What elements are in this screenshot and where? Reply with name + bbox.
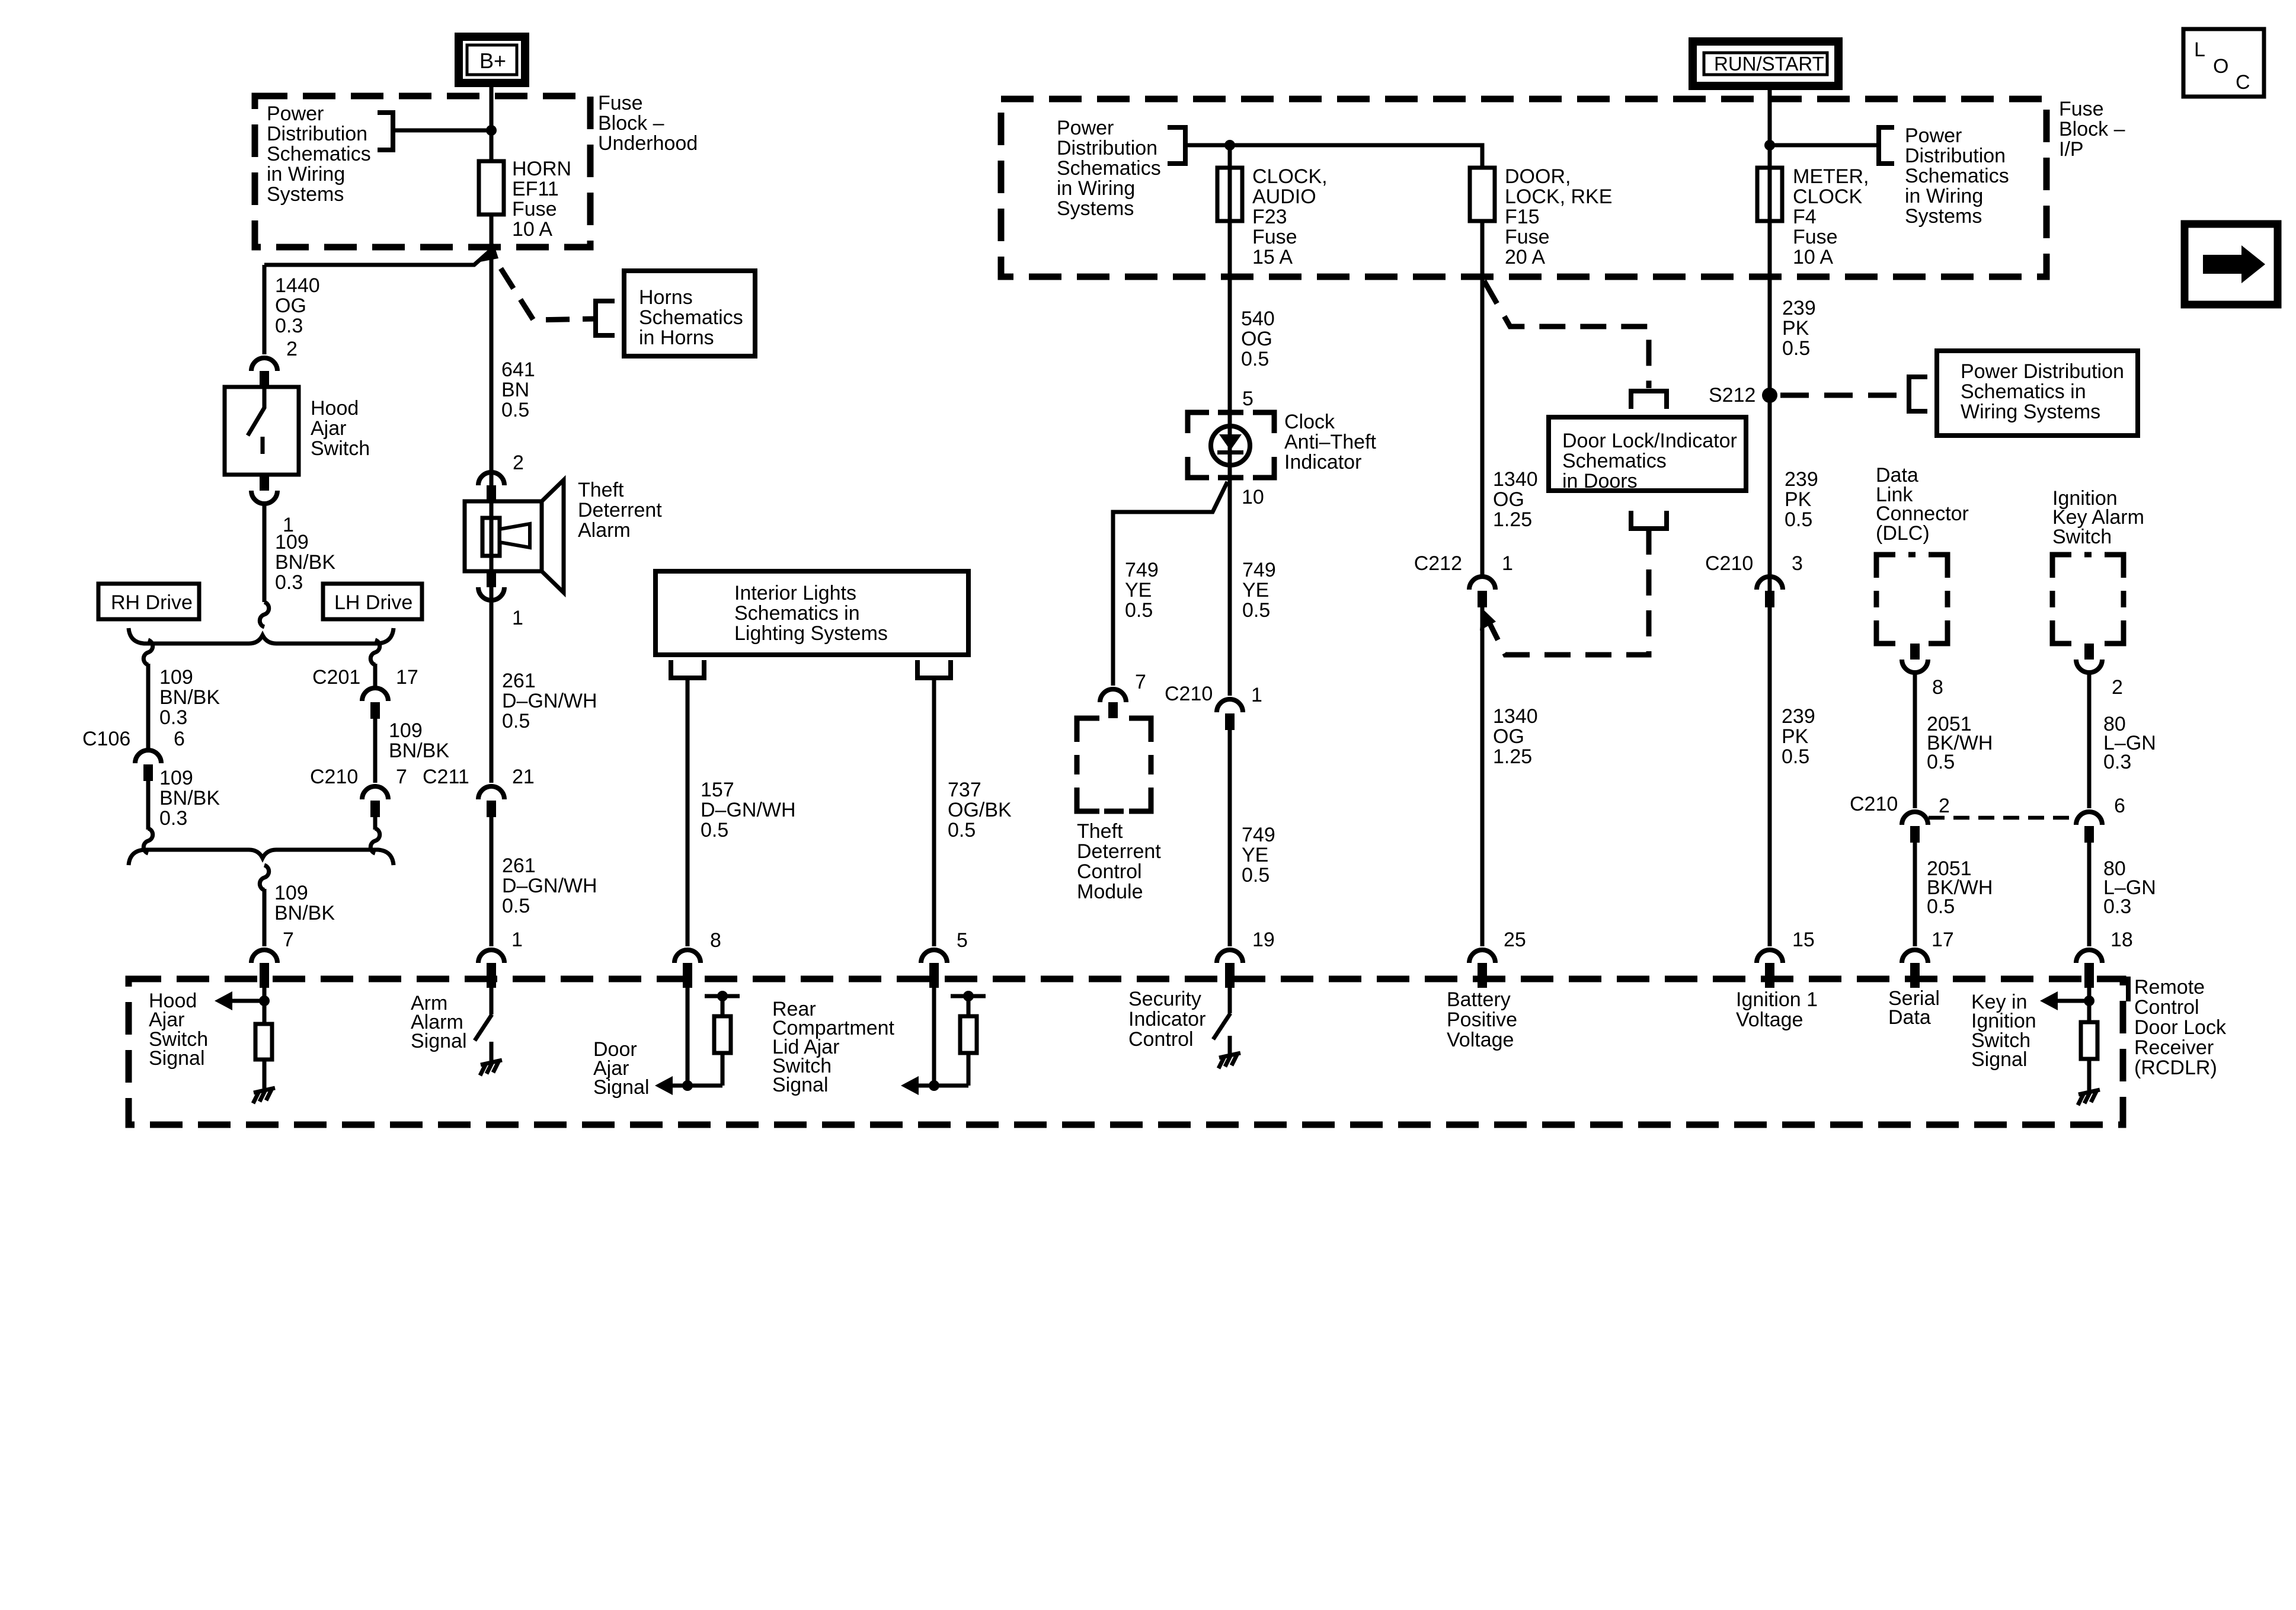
svg-text:YE: YE [1242, 579, 1269, 601]
wire merged to pin 7 [263, 889, 267, 946]
svg-text:17: 17 [1932, 929, 1954, 951]
label Door Lock/Indicator Schematics in Doors [1562, 430, 1737, 492]
svg-text:F4: F4 [1793, 206, 1817, 228]
LH Drive tag box [323, 584, 422, 619]
svg-text:109: 109 [159, 767, 193, 789]
svg-text:Interior Lights: Interior Lights [734, 582, 856, 604]
svg-text:(RCDLR): (RCDLR) [2134, 1057, 2217, 1079]
svg-text:Power: Power [1057, 117, 1114, 139]
LOC legend box [2183, 29, 2264, 97]
arrowhead at C212 pin [1480, 608, 1496, 630]
svg-text:CLOCK,: CLOCK, [1252, 165, 1328, 188]
door lock/indicator schematics box [1549, 417, 1746, 491]
svg-text:C210: C210 [1705, 552, 1753, 575]
svg-text:OG: OG [1493, 488, 1524, 511]
svg-text:Switch: Switch [2052, 526, 2112, 548]
svg-text:25: 25 [1504, 929, 1526, 951]
wire meter fuse to pin 15 [1768, 277, 1772, 946]
label wire 540 OG 0.5 [1241, 308, 1275, 370]
svg-text:Theft: Theft [1077, 820, 1123, 843]
label wire 109 BN/BK 0.3 [275, 531, 335, 594]
wire down to hood ajar switch [263, 265, 267, 354]
svg-text:1.25: 1.25 [1493, 508, 1532, 531]
svg-text:in Horns: in Horns [639, 327, 714, 349]
svg-text:L: L [2194, 39, 2205, 61]
label wire 80 L-GN 0.3 (lower) [2103, 857, 2156, 918]
svg-text:Schematics in: Schematics in [1961, 380, 2086, 403]
connector pin 8 into RCDLR [674, 950, 701, 963]
RCDLR label bracket [2103, 979, 2128, 1001]
svg-text:21: 21 [512, 766, 535, 788]
svg-text:Fuse: Fuse [1252, 226, 1297, 248]
connector pin 7 TDCM [1100, 689, 1126, 702]
svg-text:B+: B+ [479, 49, 506, 73]
svg-text:0.5: 0.5 [502, 710, 530, 732]
wire LH branch middle [373, 719, 378, 783]
hook left branch top [143, 640, 152, 665]
svg-text:C210: C210 [310, 766, 358, 788]
hook below lower brace [260, 865, 268, 890]
svg-text:Control: Control [1128, 1028, 1194, 1051]
wire C210 to pin 17 [1913, 843, 1917, 946]
svg-text:5: 5 [957, 929, 968, 952]
tab right under interior lights [917, 660, 951, 678]
ground security indicator [1219, 1053, 1240, 1068]
fork above door lock box [1631, 391, 1667, 409]
wire RH branch lower [146, 781, 151, 830]
label Clock Anti-Theft Indicator [1284, 411, 1377, 473]
svg-text:0.5: 0.5 [1927, 895, 1955, 918]
label 109 BN/BK (merged) [274, 882, 335, 924]
svg-text:8: 8 [710, 929, 721, 952]
security indicator switch [1228, 988, 1232, 1013]
svg-text:YE: YE [1242, 844, 1268, 866]
svg-text:PK: PK [1782, 725, 1809, 748]
svg-text:10 A: 10 A [512, 218, 552, 241]
svg-text:737: 737 [948, 779, 981, 801]
svg-text:PK: PK [1782, 317, 1809, 340]
hook right branch top [370, 640, 379, 665]
alarm horn trapezoid [500, 524, 530, 548]
svg-text:Signal: Signal [149, 1047, 205, 1070]
label wire 239 PK 0.5 (middle) [1785, 468, 1818, 531]
connector C210 pin 3 [1757, 577, 1783, 590]
svg-text:Signal: Signal [772, 1074, 829, 1096]
svg-text:0.5: 0.5 [1927, 751, 1955, 773]
svg-text:1.25: 1.25 [1493, 745, 1532, 768]
svg-text:239: 239 [1785, 468, 1818, 491]
wire indicator to C210 [1228, 478, 1232, 696]
svg-text:LOCK, RKE: LOCK, RKE [1505, 185, 1612, 208]
svg-text:Voltage: Voltage [1447, 1029, 1514, 1051]
wire B+ to fuse EF11 [490, 83, 494, 161]
svg-text:2: 2 [2112, 676, 2123, 699]
node junction meter fuse feed [1764, 140, 1775, 151]
svg-text:in Wiring: in Wiring [1905, 185, 1983, 207]
connector pin 7 into RCDLR [251, 950, 277, 963]
connector arc pin 2 [251, 358, 277, 371]
label Key in Ignition Switch Signal [1971, 991, 2036, 1071]
ground hood ajar [253, 1088, 275, 1103]
ignition key alarm switch dashed box [2052, 555, 2124, 644]
svg-text:C212: C212 [1414, 552, 1462, 575]
svg-text:Distribution: Distribution [267, 123, 367, 145]
RH Drive tag box [98, 584, 199, 619]
svg-text:YE: YE [1125, 579, 1152, 601]
svg-text:Control: Control [2134, 996, 2199, 1019]
svg-text:Alarm: Alarm [578, 519, 631, 542]
svg-text:10: 10 [1242, 486, 1264, 508]
svg-text:C: C [2236, 71, 2250, 94]
svg-text:C106: C106 [82, 728, 130, 750]
label DOOR, LOCK, RKE F15 Fuse 20 A [1505, 165, 1612, 268]
fuse block I/P dashed box [1001, 99, 2046, 277]
wire bracket to door fuse feed [1185, 145, 1482, 168]
label wire 261 D-GN/WH 0.5 (lower) [502, 854, 597, 917]
svg-text:540: 540 [1241, 308, 1275, 330]
svg-text:5: 5 [1242, 388, 1253, 410]
label Remote Control Door Lock Receiver (RCDLR) [2134, 976, 2227, 1079]
svg-text:1: 1 [1502, 552, 1513, 575]
label Interior Lights Schematics in Lighting Systems [734, 582, 888, 645]
label wire 1340 OG 1.25 (lower) [1493, 705, 1538, 768]
svg-text:Wiring Systems: Wiring Systems [1961, 401, 2100, 423]
svg-text:Receiver: Receiver [2134, 1036, 2214, 1059]
connector C201 pin 17 [362, 688, 388, 701]
svg-text:PK: PK [1785, 488, 1812, 511]
label METER, CLOCK F4 Fuse 10 A [1793, 165, 1869, 268]
label Power Distribution Schematics in Wiring Systems (I/P right) [1905, 124, 2009, 228]
svg-text:Signal: Signal [593, 1076, 650, 1099]
svg-text:0.5: 0.5 [948, 819, 976, 841]
svg-text:641: 641 [501, 359, 535, 381]
label wire 80 L-GN 0.3 (upper) [2103, 713, 2156, 773]
svg-text:15: 15 [1792, 929, 1815, 951]
svg-text:Battery: Battery [1447, 988, 1511, 1011]
dashed branch to horns schematics [501, 268, 596, 320]
tab left under interior lights [671, 660, 704, 678]
svg-text:1: 1 [1251, 684, 1262, 706]
svg-text:Fuse: Fuse [1505, 226, 1550, 248]
horns schematics box [624, 271, 755, 356]
svg-text:Deterrent: Deterrent [578, 499, 662, 521]
hook left branch bottom [143, 828, 152, 853]
svg-text:2: 2 [513, 452, 524, 474]
label Theft Deterrent Control Module [1077, 820, 1161, 903]
svg-text:BN/BK: BN/BK [389, 740, 449, 762]
svg-text:Schematics: Schematics [1057, 157, 1161, 180]
direction arrow box [2185, 224, 2278, 305]
label Rear Compartment Lid Ajar Switch Signal [772, 998, 895, 1096]
wire junction to right bracket [1770, 143, 1879, 148]
connector pin 19 into RCDLR [1217, 950, 1243, 963]
label Battery Positive Voltage [1447, 988, 1517, 1051]
wire door fuse to C212 [1480, 277, 1485, 576]
wire branch to hood ajar switch [264, 251, 490, 265]
connector C211 pin 21 [478, 786, 504, 799]
connector C210 pin 1 [1217, 699, 1243, 712]
alarm inner element [482, 518, 500, 556]
power distribution schematics box (S212) [1937, 351, 2138, 436]
wire pin 6 to pin 18 [2087, 843, 2092, 946]
svg-text:749: 749 [1242, 824, 1275, 846]
pull-up bar rear compartment [951, 994, 986, 998]
label wire 737 OG/BK 0.5 [948, 779, 1012, 841]
wire bracket to junction [393, 129, 491, 133]
svg-text:Systems: Systems [267, 183, 344, 206]
arm alarm switch [490, 988, 494, 1014]
svg-text:7: 7 [283, 929, 294, 951]
svg-text:C210: C210 [1165, 683, 1213, 705]
resistor key in ignition [2081, 1022, 2097, 1059]
bracket to power distribution (underhood) [378, 113, 393, 150]
svg-text:Power Distribution: Power Distribution [1961, 360, 2124, 383]
svg-text:F15: F15 [1505, 206, 1540, 228]
svg-text:0.3: 0.3 [2103, 751, 2131, 773]
node junction clock fuse feed [1224, 140, 1235, 151]
svg-text:D–GN/WH: D–GN/WH [701, 799, 796, 821]
svg-text:Ignition 1: Ignition 1 [1736, 988, 1818, 1011]
svg-text:Voltage: Voltage [1736, 1009, 1803, 1031]
svg-text:Lighting Systems: Lighting Systems [734, 622, 888, 645]
label Ignition 1 Voltage [1736, 988, 1818, 1031]
resistor hood ajar [255, 1024, 272, 1060]
rear compartment internals [932, 988, 936, 1086]
svg-text:Anti–Theft: Anti–Theft [1284, 431, 1377, 453]
theft deterrent control module dashed box [1077, 718, 1151, 811]
svg-text:D–GN/WH: D–GN/WH [502, 875, 597, 897]
key in ignition internals [2087, 988, 2092, 1022]
svg-text:OG: OG [275, 295, 306, 317]
label Power Distribution Schematics in Wiring Systems (I/P left) [1057, 117, 1161, 220]
svg-text:15 A: 15 A [1252, 246, 1293, 268]
fuse METER CLOCK F4 10A [1757, 168, 1782, 221]
label wire 641 BN 0.5 [501, 359, 535, 421]
svg-text:0.5: 0.5 [1782, 745, 1809, 768]
label Theft Deterrent Alarm [578, 479, 662, 542]
LED indicator circle [1211, 426, 1250, 465]
svg-text:Power: Power [1905, 124, 1962, 147]
label Hood Ajar Switch [311, 397, 370, 460]
svg-text:18: 18 [2110, 929, 2133, 951]
svg-text:Block –: Block – [598, 112, 664, 135]
svg-text:O: O [2213, 55, 2228, 78]
label Ignition Key Alarm Switch [2052, 487, 2144, 548]
theft deterrent alarm body [465, 501, 542, 571]
svg-text:239: 239 [1782, 297, 1816, 319]
label Data Link Connector (DLC) [1876, 464, 1969, 545]
dashed connector link C210 [1929, 816, 2076, 820]
connector arc alarm pin 2 [478, 472, 504, 485]
arrowhead at fuse output [480, 244, 498, 262]
label Serial Data [1888, 987, 1940, 1029]
svg-text:CLOCK: CLOCK [1793, 185, 1862, 208]
connector C106 pin 6 [135, 750, 161, 763]
svg-text:HORN: HORN [512, 158, 571, 180]
label Power Distribution Schematics in Wiring Systems (box) [1961, 360, 2124, 423]
hood ajar signal wire and node [263, 988, 267, 1024]
node junction below B+ [486, 125, 497, 136]
svg-text:Switch: Switch [311, 437, 370, 460]
label HORN EF11 Fuse 10 A [512, 158, 571, 241]
svg-text:0.5: 0.5 [501, 399, 529, 421]
dashed return to C212 pin with arrow [1489, 529, 1649, 655]
wire key switch to pin 6 [2087, 673, 2092, 808]
wire DLC to C210 [1913, 673, 1917, 808]
label wire 157 D-GN/WH 0.5 [701, 779, 796, 841]
svg-text:3: 3 [1792, 552, 1803, 575]
svg-text:20 A: 20 A [1505, 246, 1545, 268]
connector pin 17 into RCDLR [1902, 950, 1928, 963]
svg-text:Schematics: Schematics [639, 306, 743, 329]
label wire 2051 BK/WH 0.5 (upper) [1927, 713, 1993, 773]
svg-text:Block –: Block – [2059, 118, 2125, 140]
svg-text:0.5: 0.5 [502, 895, 530, 917]
ground key in ignition [2078, 1090, 2100, 1105]
svg-text:D–GN/WH: D–GN/WH [502, 690, 597, 712]
svg-text:6: 6 [174, 728, 185, 750]
label CLOCK, AUDIO F23 Fuse 15 A [1252, 165, 1328, 268]
label Power Distribution Schematics in Wiring Systems (underhood) [267, 103, 371, 206]
svg-text:2: 2 [286, 338, 298, 360]
svg-text:Hood: Hood [311, 397, 359, 420]
svg-text:Security: Security [1128, 988, 1201, 1010]
svg-text:109: 109 [274, 882, 308, 904]
svg-text:749: 749 [1125, 559, 1159, 581]
svg-text:in Wiring: in Wiring [267, 163, 345, 185]
hood ajar signal arrow [220, 999, 264, 1003]
hook right branch bottom [370, 828, 379, 853]
LED cathode bar [1217, 450, 1243, 454]
connector pin 25 into RCDLR [1469, 950, 1495, 963]
switch blade hood ajar [248, 387, 264, 436]
wire C210 to pin 19 [1228, 730, 1232, 946]
svg-text:261: 261 [502, 854, 536, 877]
label 109 BN/BK 0.3 (RH lower) [159, 767, 220, 830]
hood ajar switch S58 [225, 387, 299, 475]
pin 1 hood ajar switch [260, 475, 269, 491]
svg-text:Indicator: Indicator [1128, 1008, 1205, 1030]
pin 1 theft deterrent alarm [487, 571, 496, 587]
svg-text:Indicator: Indicator [1284, 451, 1361, 473]
fork below door lock box [1631, 511, 1667, 529]
svg-text:Theft: Theft [578, 479, 624, 501]
label wire 749 YE 0.5 (main) [1242, 559, 1276, 622]
svg-text:Schematics: Schematics [1905, 165, 2009, 187]
svg-text:S212: S212 [1709, 384, 1755, 406]
label wire 239 PK 0.5 (upper) [1782, 297, 1816, 360]
splice S212 [1762, 388, 1777, 403]
svg-text:Distribution: Distribution [1057, 137, 1157, 159]
label Hood Ajar Switch Signal [149, 990, 208, 1070]
svg-text:Deterrent: Deterrent [1077, 840, 1161, 863]
svg-text:BN/BK: BN/BK [159, 787, 220, 809]
svg-text:109: 109 [389, 719, 423, 742]
svg-text:OG/BK: OG/BK [948, 799, 1012, 821]
bracket to power distribution (S212) [1909, 377, 1927, 411]
svg-text:0.3: 0.3 [159, 706, 187, 729]
svg-text:Horns: Horns [639, 286, 693, 309]
svg-text:Data: Data [1888, 1006, 1931, 1029]
svg-text:0.3: 0.3 [159, 807, 187, 830]
lower brace [129, 850, 394, 865]
svg-text:in Wiring: in Wiring [1057, 177, 1135, 200]
svg-text:2: 2 [1939, 795, 1950, 817]
LED diode triangle [1219, 434, 1242, 450]
RCDLR module dashed box [129, 979, 2123, 1125]
fuse DOOR LOCK RKE F15 20A [1470, 168, 1495, 221]
pull-up bar door ajar [705, 994, 740, 998]
wire C212 to pin 25 [1480, 607, 1485, 946]
svg-text:7: 7 [396, 766, 407, 788]
svg-text:7: 7 [1135, 671, 1146, 693]
svg-text:Schematics in: Schematics in [734, 602, 860, 625]
svg-text:OG: OG [1241, 328, 1272, 350]
connector pin 1 into RCDLR [478, 950, 504, 963]
power symbol B+ [459, 37, 525, 83]
wire RUN/START down to meter fuse [1768, 86, 1772, 277]
svg-text:239: 239 [1782, 705, 1815, 728]
svg-text:F23: F23 [1252, 206, 1287, 228]
svg-text:DOOR,: DOOR, [1505, 165, 1571, 188]
wire break hook at brace top [260, 602, 268, 627]
bracket to power distribution (I/P left) [1168, 127, 1185, 164]
wire to brace [263, 504, 267, 602]
connector pin 6 [2076, 812, 2102, 825]
label wire 749 YE 0.5 (lower) [1242, 824, 1275, 886]
svg-text:Signal: Signal [411, 1030, 467, 1052]
svg-text:261: 261 [502, 670, 536, 692]
label Fuse Block I/P [2059, 98, 2125, 161]
connector C212 pin 1 [1469, 577, 1495, 590]
label wire 1340 OG 1.25 (upper) [1493, 468, 1538, 531]
svg-text:749: 749 [1242, 559, 1276, 581]
svg-text:Fuse: Fuse [2059, 98, 2104, 120]
svg-text:Systems: Systems [1905, 205, 1982, 228]
wire LH branch upper [373, 664, 378, 688]
svg-text:Fuse: Fuse [598, 92, 643, 114]
wire clock fuse to indicator [1228, 277, 1232, 480]
svg-text:C211: C211 [423, 766, 469, 788]
ground arm alarm [480, 1060, 502, 1076]
svg-text:0.5: 0.5 [1242, 864, 1269, 886]
svg-text:0.5: 0.5 [701, 819, 728, 841]
wire LH branch lower [373, 817, 378, 830]
svg-text:Ajar: Ajar [311, 417, 346, 440]
wire junction down to clock fuse [1228, 145, 1232, 277]
key switch pin and cup connector [2084, 644, 2094, 660]
svg-text:1440: 1440 [275, 274, 320, 297]
label wire 749 YE 0.5 (branch) [1125, 559, 1159, 622]
svg-text:109: 109 [159, 666, 193, 689]
dashed wire S212 to bracket [1780, 393, 1907, 398]
svg-text:1: 1 [511, 929, 523, 951]
label Horns Schematics in Horns [639, 286, 743, 349]
svg-text:1: 1 [512, 607, 523, 629]
svg-text:0.5: 0.5 [1782, 337, 1810, 360]
svg-text:0.5: 0.5 [1241, 348, 1269, 370]
svg-text:0.5: 0.5 [1242, 599, 1270, 622]
svg-text:10 A: 10 A [1793, 246, 1833, 268]
label Door Ajar Signal [593, 1038, 650, 1099]
clock anti-theft indicator dashed outline [1188, 412, 1274, 478]
svg-text:1340: 1340 [1493, 705, 1538, 728]
svg-text:Schematics: Schematics [1562, 450, 1667, 472]
label wire 239 PK 0.5 (lower) [1782, 705, 1815, 768]
fuse HORN EF11 10A [479, 161, 504, 215]
svg-text:Control: Control [1077, 860, 1142, 883]
wire resistor to ground [263, 1060, 267, 1089]
